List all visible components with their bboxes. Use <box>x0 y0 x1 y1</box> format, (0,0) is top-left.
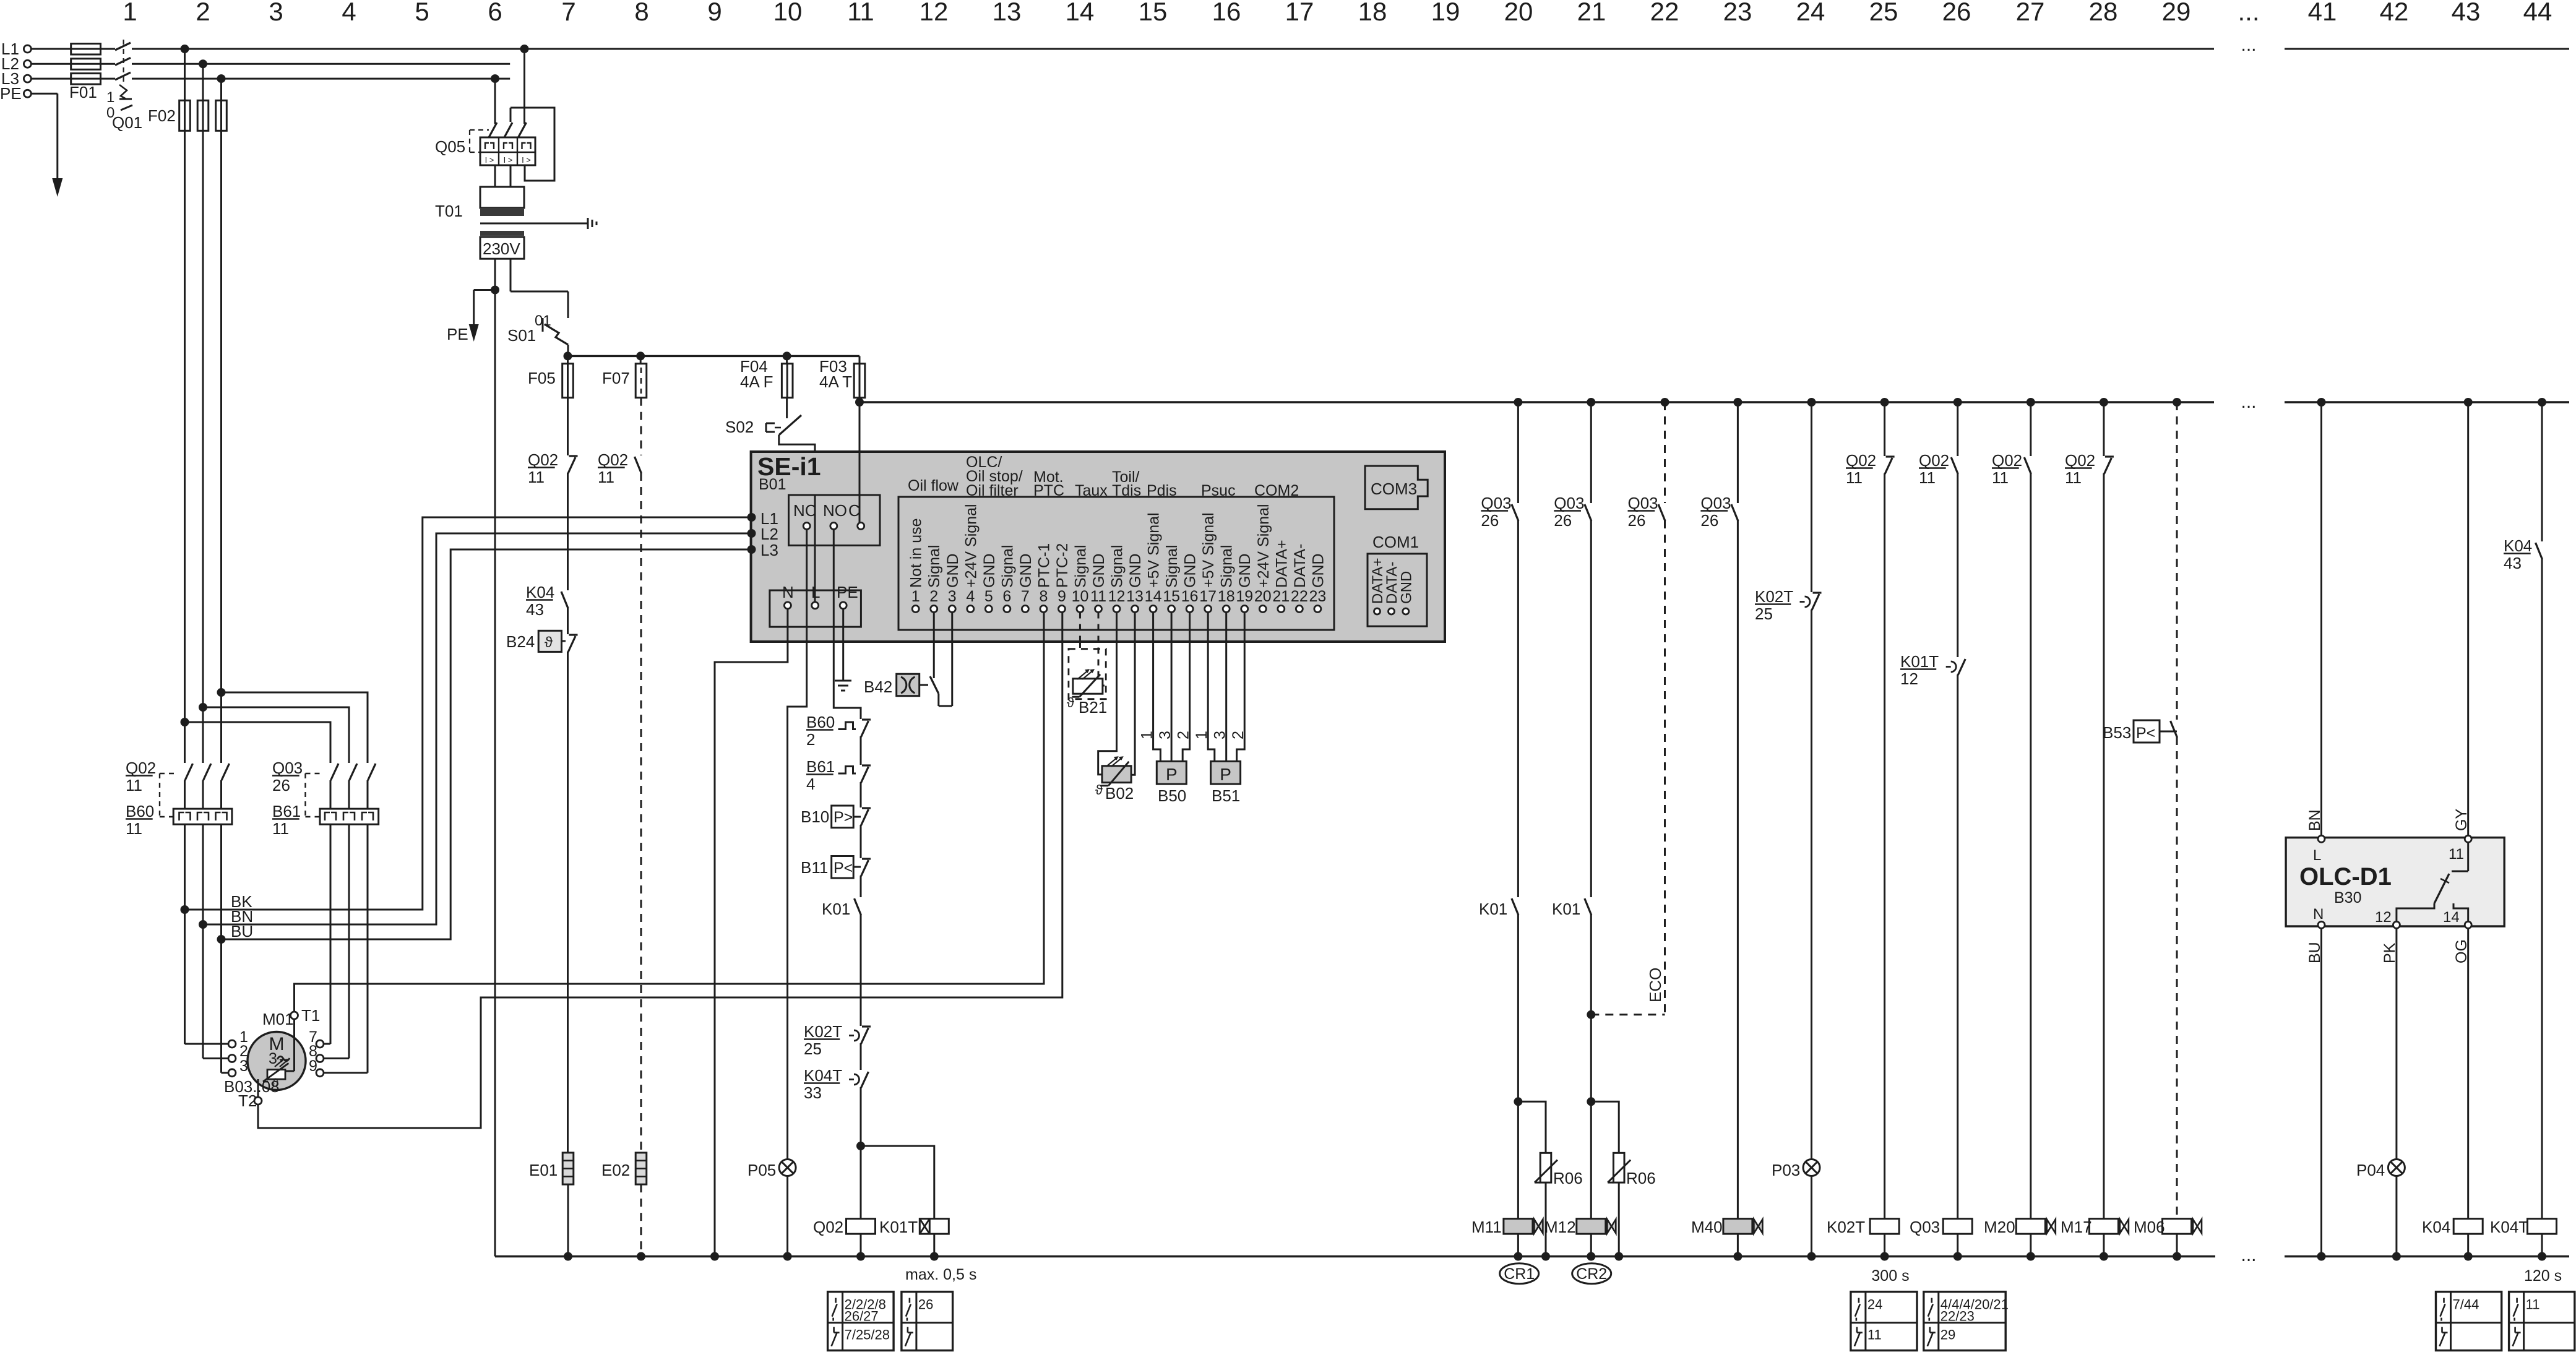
junction BU <box>217 935 226 944</box>
heater E01 <box>562 1153 574 1184</box>
svg-text:43: 43 <box>2504 554 2522 572</box>
contact Q02 11 (F05 branch) <box>568 457 575 473</box>
svg-text:11: 11 <box>1846 468 1863 487</box>
svg-text:B50: B50 <box>1158 786 1186 805</box>
resistor R06 (M12) <box>1591 1101 1619 1153</box>
junction Q03 branch L1 <box>181 718 189 726</box>
svg-text:18: 18 <box>1218 588 1235 605</box>
marker CR1 <box>1500 1264 1539 1284</box>
svg-text:15: 15 <box>1163 588 1180 605</box>
oil level control B30 OLC-D1 <box>2286 838 2504 926</box>
svg-text:Tdis: Tdis <box>1112 482 1141 499</box>
fuse F05 <box>567 356 569 363</box>
svg-text:Oil flow: Oil flow <box>908 477 959 494</box>
junction BK <box>181 905 189 914</box>
junction control rail <box>2538 398 2546 407</box>
pin OLC 14 <box>2465 921 2471 928</box>
svg-text:8: 8 <box>634 0 648 26</box>
svg-text:F05: F05 <box>528 369 556 387</box>
transmitter B51 (Psuc) <box>1208 613 1215 762</box>
contactor Q02 main contacts <box>185 764 193 780</box>
svg-text:PE: PE <box>0 84 22 103</box>
svg-text:DATA-: DATA- <box>1291 544 1309 588</box>
svg-text:1: 1 <box>123 0 137 26</box>
wire T1 to PTC-1 <box>295 613 1045 1012</box>
contact cross-reference K02T <box>1851 1292 1917 1351</box>
svg-text:Q03: Q03 <box>1628 494 1658 512</box>
svg-text:E01: E01 <box>529 1161 558 1179</box>
svg-text:01: 01 <box>535 312 551 329</box>
svg-text:K04: K04 <box>526 583 554 601</box>
svg-text:11: 11 <box>1992 468 2009 487</box>
svg-text:2: 2 <box>1230 731 1247 739</box>
svg-text:M06: M06 <box>2134 1218 2165 1236</box>
svg-text:Signal: Signal <box>1109 545 1126 588</box>
svg-text:Signal: Signal <box>1072 545 1089 588</box>
svg-text:7: 7 <box>1021 588 1030 605</box>
svg-text:19: 19 <box>1431 0 1460 26</box>
svg-text:25: 25 <box>1755 605 1773 623</box>
svg-text:ϑ: ϑ <box>1095 782 1103 798</box>
svg-text:NC: NC <box>793 501 817 520</box>
svg-text:16: 16 <box>1212 0 1241 26</box>
svg-text:25: 25 <box>1869 0 1898 26</box>
lamp P05 <box>779 1160 796 1176</box>
svg-text:PK: PK <box>2381 942 2398 963</box>
fuse F04 <box>786 356 788 363</box>
svg-text:K04T: K04T <box>2490 1218 2528 1236</box>
svg-text:27: 27 <box>2016 0 2045 26</box>
coil Q02 <box>846 1219 876 1234</box>
terminal L1 <box>24 45 31 53</box>
junction control rail <box>1954 398 1962 407</box>
svg-text:11: 11 <box>1090 588 1106 605</box>
junction L3-Q05 <box>491 74 499 83</box>
junction control rail <box>1733 398 1742 407</box>
svg-text:+24V Signal: +24V Signal <box>1255 504 1272 588</box>
svg-text:1: 1 <box>1193 731 1210 739</box>
svg-text:T1: T1 <box>301 1006 320 1025</box>
solenoid coil M11 <box>1504 1219 1533 1234</box>
svg-text:11: 11 <box>847 0 874 26</box>
svg-text:Not in use: Not in use <box>908 518 925 588</box>
svg-text:R06: R06 <box>1553 1169 1583 1187</box>
junction L1-F02 <box>181 45 189 53</box>
svg-text:+5V Signal: +5V Signal <box>1145 512 1163 588</box>
junction neutral rail <box>1541 1252 1550 1261</box>
svg-text:11: 11 <box>1919 468 1936 487</box>
coil K01T (timer) <box>920 1219 949 1234</box>
svg-text:Q03: Q03 <box>272 759 303 777</box>
solenoid coil M20 <box>2016 1219 2045 1234</box>
svg-text:2: 2 <box>929 588 938 605</box>
motor terminal T2 <box>254 1097 262 1104</box>
flow switch B42 <box>933 613 935 679</box>
svg-text:23: 23 <box>1723 0 1752 26</box>
svg-text:11: 11 <box>126 776 142 794</box>
svg-text:...: ... <box>2241 392 2256 412</box>
pin C <box>858 523 864 530</box>
svg-text:M17: M17 <box>2061 1218 2092 1236</box>
svg-text:M11: M11 <box>1471 1218 1502 1236</box>
thermostat B24 <box>538 631 561 652</box>
svg-text:11: 11 <box>598 468 614 486</box>
transmitter B50 (Pdis) <box>1153 613 1161 762</box>
svg-text:BU: BU <box>2306 942 2324 963</box>
contact K04 43 <box>561 592 568 608</box>
wire BK <box>185 517 752 910</box>
junction neutral rail <box>1587 1252 1595 1261</box>
wire to K01T coil <box>861 1146 934 1219</box>
ground PE pin <box>842 609 844 681</box>
svg-text:Q02: Q02 <box>1992 451 2022 470</box>
svg-text:NO: NO <box>823 501 847 520</box>
motor terminal T1 <box>291 1012 298 1019</box>
junction F04 tap <box>783 351 791 360</box>
svg-text:2: 2 <box>1175 731 1192 739</box>
contact Q03 26 <box>1664 402 1666 503</box>
fuse F07 <box>640 356 642 363</box>
contactor Q03 main contacts <box>331 764 339 780</box>
svg-text:7: 7 <box>561 0 575 26</box>
wire S02 to L <box>814 495 816 602</box>
contact cross-reference Q02 <box>828 1292 894 1351</box>
svg-text:Q02: Q02 <box>598 450 628 469</box>
svg-text:Q02: Q02 <box>813 1218 843 1236</box>
svg-text:Psuc: Psuc <box>1201 482 1236 499</box>
PE conductor arrow <box>31 93 57 95</box>
svg-text:3: 3 <box>239 1057 248 1075</box>
svg-text:21: 21 <box>1577 0 1606 26</box>
OLC internal contact <box>2467 842 2469 871</box>
terminal L2 <box>24 60 31 67</box>
svg-text:K01: K01 <box>822 900 850 918</box>
svg-text:14: 14 <box>1066 0 1095 26</box>
pressure switch B53 <box>2176 402 2178 720</box>
svg-text:26: 26 <box>1554 511 1572 530</box>
svg-text:43: 43 <box>526 600 544 619</box>
svg-text:4A F: 4A F <box>740 372 773 391</box>
svg-text:22: 22 <box>1650 0 1679 26</box>
level switch B61 contact <box>838 767 856 774</box>
svg-text:B24: B24 <box>506 632 535 651</box>
motor terminals 1 2 3 <box>228 1040 236 1048</box>
contact K01 (M12) <box>1590 520 1592 897</box>
contact K01 (chain) <box>855 898 861 915</box>
svg-text:K01: K01 <box>1479 900 1507 918</box>
svg-text:S01: S01 <box>507 326 536 345</box>
PE arrow (transformer) <box>474 289 495 291</box>
contact K02T 25 <box>861 1028 869 1044</box>
svg-text:23: 23 <box>1309 588 1326 605</box>
svg-text:B60: B60 <box>126 802 154 820</box>
junction BN <box>199 920 207 929</box>
contact Q03 26 <box>1590 402 1592 503</box>
svg-text:11: 11 <box>2065 468 2082 487</box>
wire L1 bus <box>31 48 71 50</box>
svg-text:P>: P> <box>834 809 853 826</box>
contact K01 (M11) <box>1517 520 1519 897</box>
terminal strip (pins 1-23) <box>898 497 1334 630</box>
junction neutral rail <box>1807 1252 1816 1261</box>
wire C from F03 <box>859 402 861 522</box>
svg-text:COM3: COM3 <box>1371 480 1417 498</box>
svg-text:4: 4 <box>806 775 815 793</box>
junction neutral rail <box>1954 1252 1962 1261</box>
svg-text:Q03: Q03 <box>1700 494 1731 512</box>
junction R06-M12 <box>1587 1097 1595 1106</box>
svg-text:26/27: 26/27 <box>845 1309 879 1324</box>
svg-text:B60: B60 <box>806 713 835 731</box>
pin N <box>784 602 791 609</box>
coil K04 <box>2453 1219 2483 1234</box>
svg-text:29: 29 <box>1941 1327 1955 1343</box>
contact cross-reference K04T <box>2509 1292 2575 1351</box>
svg-text:I >: I > <box>522 155 531 165</box>
pin OLC N <box>2318 921 2325 928</box>
svg-text:13: 13 <box>993 0 1022 26</box>
svg-text:20: 20 <box>1504 0 1533 26</box>
svg-text:K01T: K01T <box>879 1218 918 1236</box>
svg-text:19: 19 <box>1236 588 1253 605</box>
svg-text:B10: B10 <box>801 807 829 826</box>
svg-text:PTC: PTC <box>1033 482 1064 499</box>
sensor B21 (Taux) <box>1079 613 1081 642</box>
svg-text:B21: B21 <box>1079 698 1107 717</box>
ECO dashed link <box>1664 520 1666 1015</box>
svg-text:PE: PE <box>447 325 468 343</box>
svg-text:17: 17 <box>1285 0 1314 26</box>
junction control rail <box>2173 398 2181 407</box>
svg-text:6: 6 <box>488 0 502 26</box>
wire L3 <box>31 78 71 80</box>
svg-text:10: 10 <box>1072 588 1089 605</box>
svg-text:R06: R06 <box>1626 1169 1656 1187</box>
svg-text:7/44: 7/44 <box>2453 1297 2479 1312</box>
svg-text:Q02: Q02 <box>528 450 558 469</box>
fuse F01 <box>71 44 101 55</box>
wire branch to Q03 <box>222 692 368 763</box>
wire N to neutral rail <box>715 609 788 1257</box>
svg-text:OLC-D1: OLC-D1 <box>2299 863 2392 890</box>
svg-text:L: L <box>2313 847 2321 864</box>
svg-text:BN: BN <box>2306 809 2324 831</box>
svg-text:max. 0,5 s: max. 0,5 s <box>905 1266 976 1283</box>
contact Q02 11 (M17) <box>2103 402 2104 456</box>
junction control rail <box>2100 398 2108 407</box>
coil K02T <box>1870 1219 1899 1234</box>
lamp P03 <box>1803 1160 1820 1176</box>
protection device B01 SE-i1 <box>751 452 1445 642</box>
svg-text:PE: PE <box>837 583 858 601</box>
svg-text:4: 4 <box>966 588 975 605</box>
svg-text:...: ... <box>2241 35 2256 55</box>
contact Q02 11 (Q03 coil) <box>1957 402 1958 456</box>
pressure switch B11 <box>832 856 854 879</box>
junction S01-F05 <box>564 351 572 360</box>
svg-text:GND: GND <box>1127 553 1144 588</box>
junction neutral rail right <box>2538 1252 2546 1261</box>
svg-text:24: 24 <box>1796 0 1825 26</box>
resistor R06 (M11) <box>1518 1101 1546 1153</box>
svg-text:ϑ: ϑ <box>1067 695 1074 710</box>
svg-text:Q02: Q02 <box>126 759 156 777</box>
fuse F02 (3x) <box>184 49 186 100</box>
svg-text:5: 5 <box>984 588 993 605</box>
svg-text:L3: L3 <box>760 541 778 559</box>
breaker Q05 <box>494 79 496 124</box>
svg-text:25: 25 <box>804 1040 822 1058</box>
svg-text:1: 1 <box>911 588 920 605</box>
svg-text:Signal: Signal <box>1218 545 1236 588</box>
svg-text:Q02: Q02 <box>1846 451 1876 470</box>
marker CR2 <box>1572 1264 1611 1284</box>
svg-text:Q02: Q02 <box>2065 451 2095 470</box>
pin OLC 11 <box>2465 835 2471 842</box>
column reference numbers <box>123 0 2552 26</box>
junction control rail <box>1587 398 1595 407</box>
junction R06-M11 <box>1514 1097 1522 1106</box>
pin PE <box>840 602 846 609</box>
svg-text:6: 6 <box>1002 588 1011 605</box>
wire 230V rail <box>568 355 859 357</box>
svg-text:P04: P04 <box>2356 1161 2385 1179</box>
svg-text:22: 22 <box>1291 588 1308 605</box>
svg-text:3: 3 <box>948 588 957 605</box>
junction Q03 branch L3 <box>217 688 226 697</box>
contact Q03 26 <box>1517 402 1519 503</box>
wire OG <box>2467 928 2469 1218</box>
junction neutral rail <box>1514 1252 1522 1261</box>
svg-text:1: 1 <box>106 89 114 106</box>
svg-text:29: 29 <box>2162 0 2191 26</box>
pin OLC 12 <box>2393 921 2400 928</box>
svg-text:2: 2 <box>196 0 210 26</box>
wire control rail L <box>859 401 2214 403</box>
svg-text:P<: P< <box>834 859 853 877</box>
svg-text:15: 15 <box>1139 0 1168 26</box>
svg-text:GND: GND <box>944 553 962 588</box>
svg-text:COM2: COM2 <box>1254 482 1299 499</box>
svg-text:B61: B61 <box>806 757 835 776</box>
junction chain-K01T <box>856 1142 865 1150</box>
svg-text:GND: GND <box>1017 553 1035 588</box>
svg-text:OG: OG <box>2453 939 2470 963</box>
svg-text:2: 2 <box>806 730 815 749</box>
junction control rail <box>1880 398 1889 407</box>
coil K04T (timer) <box>2528 1219 2557 1234</box>
junction F03-C <box>855 398 864 407</box>
svg-text:M40: M40 <box>1691 1218 1723 1236</box>
svg-text:1: 1 <box>1139 731 1156 739</box>
svg-text:Oil filter: Oil filter <box>966 482 1019 499</box>
svg-text:K04T: K04T <box>804 1066 842 1085</box>
svg-text:P03: P03 <box>1772 1161 1800 1179</box>
svg-text:26: 26 <box>1628 511 1646 530</box>
svg-text:26: 26 <box>918 1297 933 1312</box>
svg-text:PTC-2: PTC-2 <box>1054 543 1071 588</box>
junction neutral rail right <box>2317 1252 2326 1261</box>
svg-text:BU: BU <box>231 922 253 941</box>
svg-text:26: 26 <box>1942 0 1971 26</box>
motor M01 <box>248 1032 306 1090</box>
svg-text:16: 16 <box>1181 588 1199 605</box>
svg-text:13: 13 <box>1126 588 1144 605</box>
svg-text:B53: B53 <box>2103 723 2131 742</box>
svg-text:GND: GND <box>1182 553 1199 588</box>
junction neutral rail <box>2100 1252 2108 1261</box>
svg-text:E02: E02 <box>601 1161 630 1179</box>
svg-text:GND: GND <box>1309 553 1327 588</box>
junction control rail <box>1661 398 1669 407</box>
junction neutral rail <box>2027 1252 2035 1261</box>
coil Q03 <box>1943 1219 1972 1234</box>
wire neutral rail <box>495 1255 2215 1257</box>
wire BU <box>222 549 752 939</box>
svg-text:20: 20 <box>1254 588 1272 605</box>
svg-text:P: P <box>1220 765 1231 784</box>
switch S01 <box>542 318 544 332</box>
svg-text:11: 11 <box>126 819 142 838</box>
svg-text:10: 10 <box>773 0 803 26</box>
pressure switch B10 <box>832 806 854 828</box>
contact cross-reference K04 <box>2436 1292 2502 1351</box>
junction control rail <box>2464 398 2473 407</box>
contact Q03 26 <box>1737 402 1739 503</box>
svg-text:I >: I > <box>504 155 513 165</box>
svg-text:CR2: CR2 <box>1576 1265 1607 1283</box>
junction SE-i1 L3 <box>747 545 756 554</box>
svg-text:Signal: Signal <box>1163 545 1181 588</box>
junction neutral rail <box>2173 1252 2181 1261</box>
svg-text:230V: 230V <box>483 239 520 258</box>
svg-text:K02T: K02T <box>1827 1218 1865 1236</box>
svg-text:B01: B01 <box>759 476 786 493</box>
svg-text:300 s: 300 s <box>1871 1267 1909 1285</box>
fuse F03 <box>859 356 861 363</box>
power box N L PE <box>770 590 861 627</box>
svg-text:...: ... <box>2238 0 2259 26</box>
svg-text:N: N <box>2313 906 2324 923</box>
svg-text:Q03: Q03 <box>1910 1218 1940 1236</box>
svg-text:26: 26 <box>1481 511 1499 530</box>
svg-text:...: ... <box>2241 1245 2256 1265</box>
pin COM1 DATA+ <box>1374 608 1381 614</box>
svg-text:S02: S02 <box>725 418 754 436</box>
junction control rail <box>1807 398 1816 407</box>
junction neutral rail right <box>2392 1252 2401 1261</box>
svg-text:B11: B11 <box>801 858 828 877</box>
svg-text:3: 3 <box>1212 731 1229 739</box>
svg-text:3: 3 <box>269 1050 277 1067</box>
svg-text:11: 11 <box>528 468 545 486</box>
svg-text:GND: GND <box>981 553 998 588</box>
svg-text:ϑ: ϑ <box>545 634 553 651</box>
svg-text:M01: M01 <box>262 1010 294 1028</box>
svg-text:41: 41 <box>2308 0 2337 26</box>
junction control rail <box>1514 398 1522 407</box>
junction L3-F02 <box>217 74 226 83</box>
wire Q05 bypass <box>510 108 512 122</box>
svg-text:GND: GND <box>1090 553 1108 588</box>
svg-text:N: N <box>782 583 794 601</box>
svg-text:8: 8 <box>1039 588 1048 605</box>
svg-text:42: 42 <box>2380 0 2409 26</box>
wire N drop <box>494 290 496 1257</box>
switch Q01 <box>115 43 131 50</box>
transformer T01 <box>480 187 524 208</box>
junction SE-i1 L1 <box>747 513 756 522</box>
